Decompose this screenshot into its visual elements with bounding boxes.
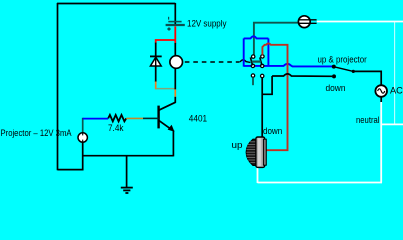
resistor R1 black lead to base (143, 117, 159, 119)
wire left rail (57, 3, 59, 170)
relay contact C1 stub (252, 77, 254, 85)
motor dome (246, 139, 256, 165)
white wire AC to bottom (380, 102, 382, 183)
white neutral wire right vertical (394, 22, 396, 125)
motor right cap (263, 139, 266, 165)
white wire motor bottom lead (257, 166, 259, 183)
svg-text:7.4k: 7.4k (108, 123, 124, 133)
battery minus tick (168, 17, 170, 20)
wire bottom-left jog (58, 133, 83, 170)
relay link hop over blue wire (240, 60, 251, 63)
wire bottom rail (83, 155, 174, 157)
ground symbol (121, 188, 133, 193)
resistor R1 zigzag (108, 115, 126, 122)
svg-text:up: up (232, 140, 243, 150)
diode D1 cathode lead (155, 43, 157, 57)
wire battery top lead (174, 3, 176, 25)
svg-text:neutral: neutral (356, 115, 380, 125)
motor M1 (246, 137, 266, 167)
relay lever 2 (260, 57, 262, 65)
diode D1 (150, 56, 162, 67)
switch SW1 common node (352, 70, 355, 73)
relay mechanical bar (252, 60, 261, 62)
wire switch common to AC (353, 71, 381, 85)
lamp LP1 projector (78, 133, 87, 142)
blue loop right vertical (267, 38, 269, 66)
svg-text:down: down (326, 83, 346, 93)
wire top rail (57, 3, 175, 5)
wire emitter down (172, 130, 174, 156)
relay contact A1 (252, 55, 255, 58)
resistor R1 blue lead (83, 118, 109, 120)
wire down connector (262, 76, 272, 94)
relay contact B2 (261, 64, 264, 67)
motor flange body (256, 137, 265, 167)
wire red branch to diode (156, 40, 176, 43)
svg-text:AC: AC (390, 85, 403, 95)
wire ground stub (126, 156, 128, 188)
relay contact A2 (261, 55, 264, 58)
relay contact C2 (261, 74, 264, 77)
white neutral branch horizontal (381, 123, 403, 125)
wire lamp top teal segment (82, 118, 84, 134)
blue bottom wire to switch with hop over red (244, 64, 332, 67)
relay contact C1 (251, 74, 254, 77)
relay link dashed line (185, 61, 240, 63)
wire olive horizontal (156, 88, 176, 90)
AC source V2 (375, 85, 387, 97)
battery B1 plates (166, 22, 185, 25)
wire down horizontal to switch with hop over red (272, 74, 332, 76)
svg-text:Projector – 12V 3mA: Projector – 12V 3mA (1, 128, 72, 138)
wire orange segment on collector line (174, 89, 176, 96)
relay lever 1 (250, 57, 252, 65)
wire AC bottom (380, 97, 382, 103)
white wire bottom horizontal (258, 182, 383, 184)
motor flange highlight (258, 138, 261, 166)
svg-text:12V supply: 12V supply (187, 19, 227, 29)
red wire from contact A2 to motor (262, 43, 287, 150)
wire down net from C2 to motor (261, 78, 263, 137)
wire coil top lead (174, 43, 176, 56)
fuse FS1 (298, 16, 316, 28)
relay coil RLA1 (170, 56, 183, 69)
motor dome ribs (246, 142, 256, 163)
diode D1 anode lead (155, 66, 157, 82)
transistor Q1 collector diagonal (159, 102, 176, 110)
switch SW1 down contact (332, 74, 336, 78)
switch SW1 lever (334, 67, 353, 72)
switch SW1 up contact (332, 65, 336, 69)
wire battery bottom (red) (174, 26, 176, 43)
blue loop left vertical (243, 38, 245, 66)
transistor Q1 emitter arrow (168, 125, 175, 132)
transistor Q1 emitter diagonal (159, 120, 172, 129)
resistor R1 tan lead (126, 117, 143, 119)
white neutral wire top (317, 21, 403, 23)
fuse wire from contact corner (254, 23, 299, 56)
wire orange segment below diode (155, 82, 157, 90)
battery plus mark (167, 27, 170, 30)
wire coil bottom to collector (174, 68, 176, 89)
relay contact B1 (251, 64, 254, 67)
svg-text:4401: 4401 (189, 113, 207, 123)
transistor Q1 base bar (157, 106, 159, 129)
svg-text:up & projector: up & projector (318, 55, 367, 65)
wire collector top (174, 97, 176, 103)
svg-text:down: down (263, 126, 282, 136)
blue loop top bridge with hop (244, 36, 269, 38)
